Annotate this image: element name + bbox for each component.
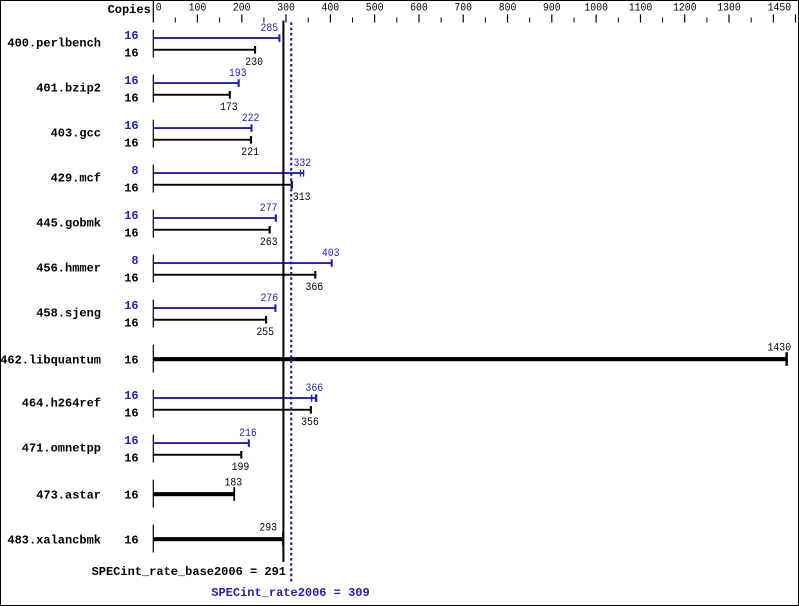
svg-text:16: 16 <box>124 74 138 88</box>
benchmark group 403.gcc <box>51 113 260 159</box>
svg-text:16: 16 <box>124 354 138 368</box>
svg-text:16: 16 <box>124 272 138 286</box>
svg-text:458.sjeng: 458.sjeng <box>36 307 101 321</box>
svg-text:285: 285 <box>261 23 279 35</box>
svg-text:173: 173 <box>220 102 238 114</box>
svg-text:8: 8 <box>131 164 138 178</box>
svg-text:400: 400 <box>322 3 340 15</box>
benchmark group 400.perlbench <box>7 23 280 69</box>
axis origin / Copies divider line <box>153 1 154 23</box>
svg-text:332: 332 <box>294 158 312 170</box>
svg-text:429.mcf: 429.mcf <box>51 172 101 186</box>
svg-text:16: 16 <box>124 489 138 503</box>
svg-text:1430: 1430 <box>768 343 792 355</box>
svg-text:SPECint_rate2006 = 309: SPECint_rate2006 = 309 <box>211 586 369 600</box>
svg-text:255: 255 <box>256 327 274 339</box>
benchmark group 401.bzip2 <box>36 68 246 114</box>
svg-text:199: 199 <box>232 462 250 474</box>
svg-text:16: 16 <box>124 137 138 151</box>
svg-text:16: 16 <box>124 119 138 133</box>
svg-text:900: 900 <box>543 3 561 15</box>
svg-text:222: 222 <box>242 113 260 125</box>
svg-text:1100: 1100 <box>629 3 653 15</box>
svg-text:100: 100 <box>189 3 207 15</box>
SPECint_rate2006 reference line (309, dotted) <box>290 22 292 582</box>
svg-text:1300: 1300 <box>717 3 741 15</box>
svg-text:16: 16 <box>124 534 138 548</box>
svg-text:16: 16 <box>124 47 138 61</box>
svg-text:403.gcc: 403.gcc <box>51 127 101 141</box>
svg-text:16: 16 <box>124 182 138 196</box>
benchmark group 445.gobmk <box>36 203 277 249</box>
svg-text:16: 16 <box>124 407 138 421</box>
svg-text:200: 200 <box>233 3 251 15</box>
benchmark group 473.astar <box>36 478 242 508</box>
svg-text:16: 16 <box>124 209 138 223</box>
svg-text:401.bzip2: 401.bzip2 <box>36 82 101 96</box>
svg-text:700: 700 <box>454 3 472 15</box>
svg-text:500: 500 <box>366 3 384 15</box>
svg-text:16: 16 <box>124 227 138 241</box>
benchmark group 464.h264ref <box>22 383 323 429</box>
benchmark group 429.mcf <box>51 158 312 204</box>
axis tick marks <box>175 14 796 22</box>
svg-text:445.gobmk: 445.gobmk <box>36 217 101 231</box>
svg-text:16: 16 <box>124 29 138 43</box>
svg-text:16: 16 <box>124 389 138 403</box>
svg-text:473.astar: 473.astar <box>36 489 101 503</box>
svg-text:16: 16 <box>124 452 138 466</box>
svg-text:483.xalancbmk: 483.xalancbmk <box>7 534 101 548</box>
benchmark group 458.sjeng <box>36 293 278 339</box>
svg-text:1000: 1000 <box>584 3 608 15</box>
svg-text:Copies: Copies <box>108 3 151 17</box>
svg-text:1450: 1450 <box>768 3 792 15</box>
svg-text:300: 300 <box>277 3 295 15</box>
svg-text:456.hmmer: 456.hmmer <box>36 262 101 276</box>
svg-text:462.libquantum: 462.libquantum <box>0 354 101 368</box>
svg-text:471.omnetpp: 471.omnetpp <box>22 442 101 456</box>
svg-text:221: 221 <box>241 147 259 159</box>
svg-text:230: 230 <box>245 57 263 69</box>
svg-text:216: 216 <box>239 428 257 440</box>
svg-text:16: 16 <box>124 434 138 448</box>
svg-text:0: 0 <box>156 3 162 15</box>
axis scale labels <box>156 3 791 15</box>
benchmark group 471.omnetpp <box>22 428 257 474</box>
benchmark group 456.hmmer <box>36 248 339 294</box>
benchmark group 462.libquantum <box>0 343 791 373</box>
SPECint_rate_base2006 reference line (291) <box>282 21 284 563</box>
svg-text:400.perlbench: 400.perlbench <box>7 37 101 51</box>
svg-text:193: 193 <box>229 68 247 80</box>
svg-text:464.h264ref: 464.h264ref <box>22 397 101 411</box>
svg-text:403: 403 <box>322 248 340 260</box>
svg-text:16: 16 <box>124 92 138 106</box>
benchmark group 483.xalancbmk <box>7 523 283 553</box>
svg-text:356: 356 <box>301 417 319 429</box>
svg-text:276: 276 <box>261 293 279 305</box>
svg-text:16: 16 <box>124 317 138 331</box>
svg-text:366: 366 <box>306 383 324 395</box>
svg-text:277: 277 <box>260 203 278 215</box>
svg-text:293: 293 <box>259 523 277 535</box>
svg-text:366: 366 <box>306 282 324 294</box>
svg-text:183: 183 <box>225 478 243 490</box>
svg-text:8: 8 <box>131 254 138 268</box>
svg-text:1200: 1200 <box>673 3 697 15</box>
svg-text:SPECint_rate_base2006 = 291: SPECint_rate_base2006 = 291 <box>92 565 286 579</box>
svg-text:16: 16 <box>124 299 138 313</box>
svg-text:800: 800 <box>499 3 517 15</box>
svg-text:263: 263 <box>260 237 278 249</box>
svg-text:600: 600 <box>410 3 428 15</box>
svg-text:313: 313 <box>293 192 311 204</box>
